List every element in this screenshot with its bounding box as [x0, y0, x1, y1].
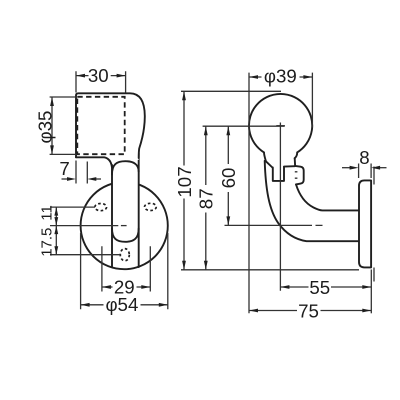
top extension line [181, 90, 281, 92]
socket cup fill [76, 93, 145, 160]
bottom extension line [181, 269, 359, 271]
dim 29 extension lines [102, 246, 150, 291]
cup lip left chamfer [266, 161, 273, 167]
dim phi35 line [51, 97, 53, 154]
svg-text:75: 75 [298, 300, 319, 321]
dim 29 arrows [102, 285, 111, 289]
socket cup outline [76, 93, 145, 158]
dim phi39 arrows [249, 75, 258, 79]
dim 55 arrows [280, 285, 289, 289]
dim phi39 line [249, 76, 312, 78]
arm right edge [138, 154, 140, 268]
dim 8 arrow right [380, 167, 387, 169]
outer elbow curve [265, 161, 360, 241]
dim phi54 extension lines [81, 233, 168, 309]
dim 11/17.5 line [55, 207, 57, 255]
dim 75 line [249, 310, 371, 312]
svg-text:17.5: 17.5 [38, 228, 55, 257]
ball with cheeks [249, 94, 312, 161]
right chamfer [294, 158, 296, 165]
base plate circle [81, 182, 168, 269]
dim 11 arrows [54, 207, 58, 216]
svg-text:107: 107 [174, 166, 195, 197]
dim 87 line [205, 126, 207, 270]
svg-text:11: 11 [38, 205, 55, 221]
svg-text:φ39: φ39 [264, 66, 297, 87]
wall line (dashed) [373, 167, 375, 282]
dim 60 line [227, 126, 229, 225]
svg-text:7: 7 [59, 158, 69, 179]
dim 8 extension lines [359, 164, 372, 179]
socket hidden bore (dashed rect) [77, 97, 124, 154]
neck slot [273, 167, 284, 181]
svg-text:87: 87 [196, 188, 217, 209]
arm bottom cap [112, 229, 139, 242]
dim 30 extension lines [76, 71, 126, 92]
arm top arch [112, 161, 139, 174]
dim phi54 line [81, 304, 168, 306]
svg-text:8: 8 [359, 147, 369, 168]
dim phi39 extension lines [249, 73, 312, 314]
extension line to top holes [50, 206, 95, 208]
arm center line [225, 224, 323, 226]
socket bottom edge with fillet [76, 157, 112, 167]
extension line plate center [50, 225, 118, 227]
center mark dash [121, 225, 127, 227]
dim phi35 arrows [50, 97, 54, 106]
horizontal center extension [203, 125, 285, 127]
dim 30 arrows [76, 74, 85, 78]
dim 87 arrows [204, 126, 208, 135]
dim 60 arrows [226, 126, 230, 135]
arm left edge [111, 165, 113, 267]
screw hole right (dashed) [145, 203, 157, 210]
dim 75 arrows [249, 309, 258, 313]
arm body fill [112, 157, 139, 243]
dim 7 extension lines [76, 161, 87, 184]
dim phi35 extension lines [50, 97, 77, 154]
dim 107 arrows [182, 91, 186, 100]
cup lip top [284, 165, 295, 167]
dim 7 arrow right [96, 178, 102, 180]
inner elbow curve [296, 184, 360, 210]
ball center mark [276, 125, 285, 127]
screw hole bottom (dashed) [120, 249, 129, 261]
dim 107 line [183, 91, 185, 269]
clip gap ticks [295, 172, 298, 178]
dim 29 line [102, 286, 150, 288]
dim 55 extension right [370, 270, 372, 314]
dim 55 line [280, 286, 371, 288]
ball axis line [279, 123, 281, 291]
dim 30 line [76, 75, 126, 77]
dim 8 arrow left [342, 167, 350, 169]
dim 17.5 arrows [54, 226, 58, 235]
dim phi54 arrows [81, 303, 90, 307]
svg-text:55: 55 [309, 277, 330, 298]
svg-text:φ35: φ35 [35, 111, 56, 144]
retaining clip tab [295, 166, 304, 185]
svg-text:30: 30 [88, 65, 109, 86]
svg-text:φ54: φ54 [105, 294, 138, 315]
screw hole left (dashed) [95, 204, 107, 211]
wall plate [359, 180, 371, 267]
svg-text:60: 60 [218, 168, 239, 189]
dim 7 arrow left [62, 178, 69, 180]
extension line to bottom hole [50, 254, 120, 256]
